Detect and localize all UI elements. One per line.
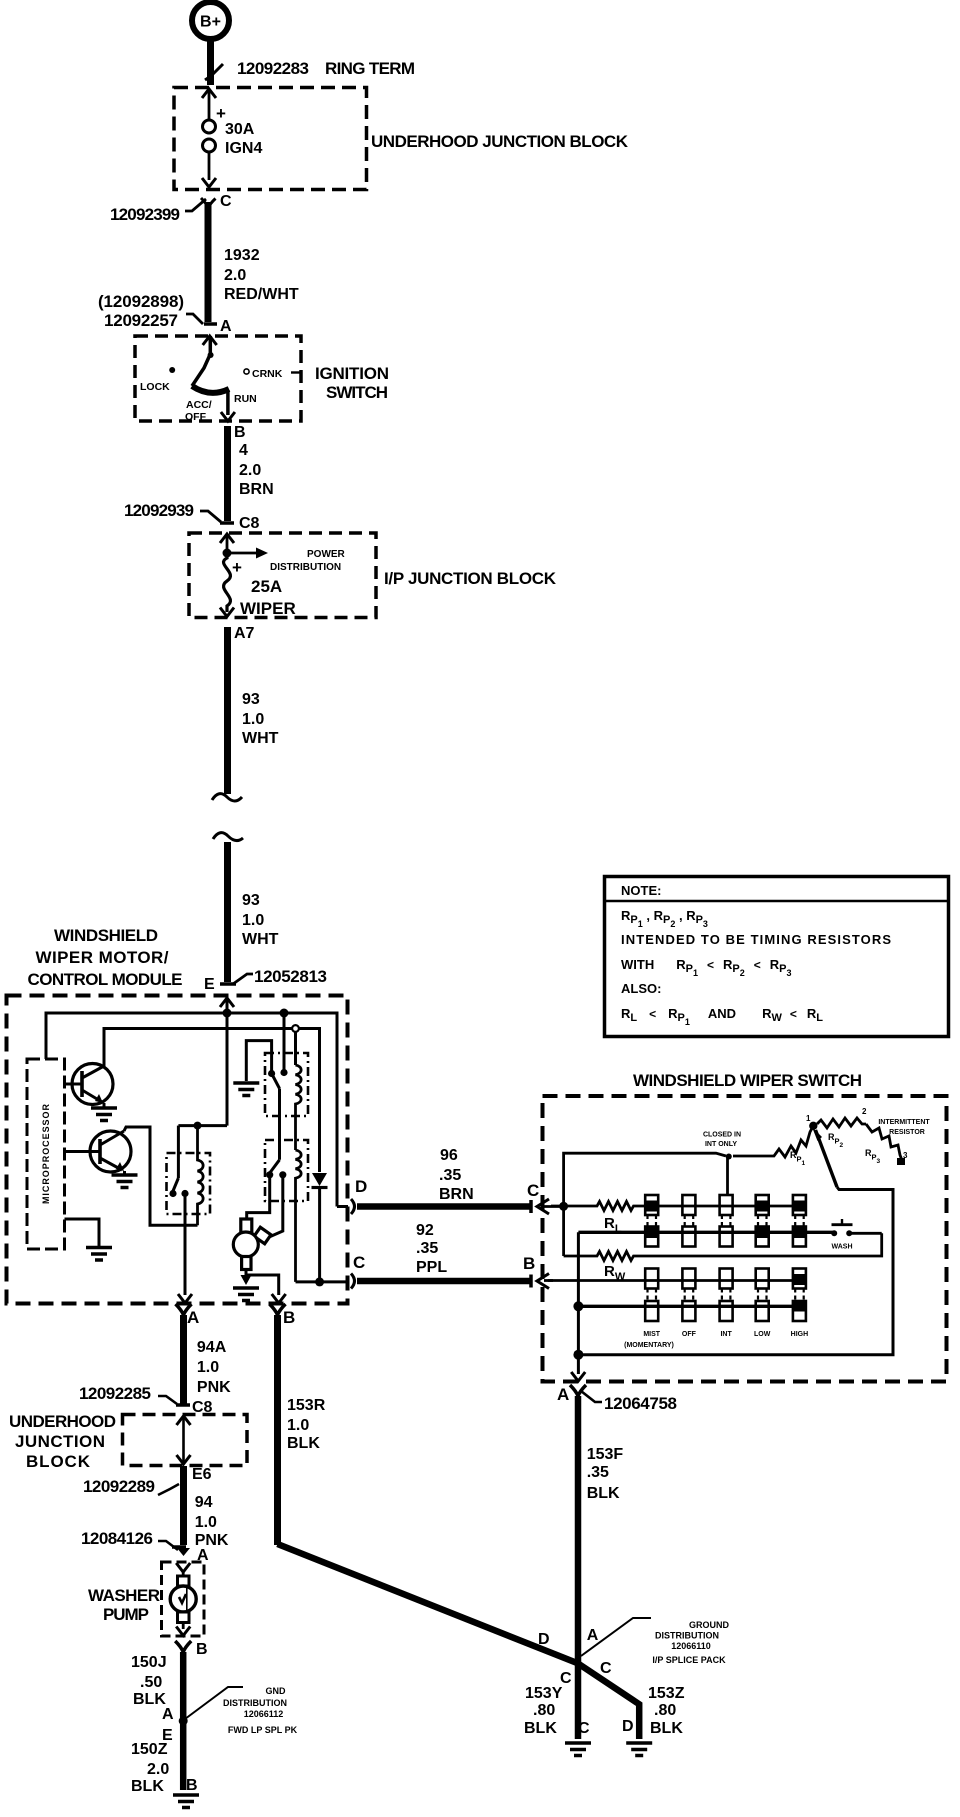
svg-text:MIST: MIST bbox=[643, 1331, 660, 1338]
lower contact column MIST bbox=[645, 1269, 658, 1322]
svg-text:JUNCTION: JUNCTION bbox=[15, 1432, 105, 1451]
wash switch bbox=[831, 1219, 882, 1251]
wire coil bottom to pin C bbox=[296, 1280, 349, 1283]
svg-text:BLK: BLK bbox=[131, 1778, 164, 1795]
svg-text:1.0: 1.0 bbox=[242, 912, 264, 929]
lower contact column OFF bbox=[682, 1269, 695, 1322]
resistor RP3 bbox=[866, 1124, 902, 1159]
svg-text:1: 1 bbox=[806, 1114, 811, 1123]
svg-text:WASH: WASH bbox=[832, 1244, 853, 1251]
pin B exit arrow bbox=[272, 1294, 286, 1303]
svg-text:D: D bbox=[538, 1631, 550, 1648]
svg-text:ACC/: ACC/ bbox=[186, 399, 212, 411]
svg-text:CONTROL MODULE: CONTROL MODULE bbox=[28, 970, 183, 989]
left vertical RW to A pin bbox=[577, 1232, 580, 1374]
wire 94A 1.0 PNK bbox=[184, 1315, 232, 1404]
svg-text:B: B bbox=[196, 1641, 208, 1658]
svg-text:BLK: BLK bbox=[587, 1485, 620, 1502]
ground under 153Z bbox=[626, 1743, 652, 1756]
svg-text:1.0: 1.0 bbox=[197, 1359, 219, 1376]
label closed in int only bbox=[703, 1132, 741, 1149]
junction block pass-through wire bbox=[177, 1416, 191, 1464]
fuse 25A WIPER bbox=[220, 553, 296, 618]
svg-text:153Z: 153Z bbox=[648, 1685, 685, 1702]
svg-text:1.0: 1.0 bbox=[195, 1514, 217, 1531]
svg-text:WIPER MOTOR/: WIPER MOTOR/ bbox=[36, 948, 169, 967]
svg-text:WHT: WHT bbox=[242, 931, 279, 948]
connector 12084126 pin A bbox=[81, 1529, 209, 1564]
svg-text:BRN: BRN bbox=[239, 481, 274, 498]
svg-text:.80: .80 bbox=[533, 1702, 555, 1719]
svg-text:C: C bbox=[220, 193, 232, 210]
svg-text:A: A bbox=[557, 1385, 569, 1404]
splice S2 I/P ground bbox=[575, 1660, 582, 1667]
svg-text:INT ONLY: INT ONLY bbox=[705, 1141, 737, 1148]
splice pin labels bbox=[538, 1627, 612, 1687]
svg-text:1.0: 1.0 bbox=[287, 1417, 309, 1434]
relay K3 coil bbox=[296, 1150, 302, 1282]
svg-text:12064758: 12064758 bbox=[604, 1394, 677, 1413]
wire 96 .35 BRN from module D to switch C bbox=[357, 1147, 564, 1214]
svg-text:A: A bbox=[587, 1627, 599, 1644]
row4 line bbox=[578, 1305, 806, 1308]
svg-text:153F: 153F bbox=[587, 1446, 624, 1463]
svg-text:A: A bbox=[162, 1706, 174, 1723]
fuse 30A IGN4 bbox=[202, 89, 262, 187]
lower contact column INT bbox=[720, 1269, 733, 1322]
connector 12092283 ring terminal bbox=[205, 59, 415, 80]
svg-text:.35: .35 bbox=[439, 1167, 461, 1184]
svg-text:LOCK: LOCK bbox=[140, 381, 170, 393]
ground under 153Y bbox=[565, 1743, 591, 1756]
resistor RP1 bbox=[733, 1126, 813, 1157]
wire Q2 collector to relay1 coil bbox=[124, 1127, 198, 1225]
svg-text:C8: C8 bbox=[239, 515, 260, 532]
wire motor to pin B bbox=[246, 1270, 279, 1296]
svg-text:BLK: BLK bbox=[650, 1720, 683, 1737]
svg-text:GROUND: GROUND bbox=[689, 1620, 729, 1630]
svg-text:INT: INT bbox=[720, 1331, 732, 1338]
relay K1 box bbox=[167, 1153, 211, 1214]
module pin B connector bbox=[270, 1304, 296, 1327]
row3 line (B) bbox=[548, 1279, 806, 1282]
relay K2 box bbox=[265, 1053, 308, 1116]
rotary wiper arm bbox=[578, 1127, 893, 1355]
wire 93 1.0 WHT (lower) bbox=[228, 842, 279, 982]
node int line to row1 bbox=[559, 1202, 568, 1211]
switch pin A exit arrow bbox=[571, 1372, 585, 1381]
svg-text:12092283: 12092283 bbox=[237, 59, 309, 78]
svg-text:94: 94 bbox=[195, 1494, 213, 1511]
svg-text:25A: 25A bbox=[251, 577, 282, 596]
wire 93 1.0 WHT (upper) bbox=[228, 627, 279, 794]
svg-text:CLOSED IN: CLOSED IN bbox=[703, 1132, 741, 1139]
svg-text:PPL: PPL bbox=[416, 1259, 447, 1276]
svg-text:12092399: 12092399 bbox=[110, 205, 180, 224]
power distribution arrow bbox=[220, 534, 346, 573]
svg-text:ALSO:: ALSO: bbox=[621, 981, 661, 996]
microprocessor U1 bbox=[27, 1059, 65, 1249]
svg-text:C: C bbox=[578, 1720, 590, 1737]
svg-text:POWER: POWER bbox=[307, 549, 346, 560]
svg-text:94A: 94A bbox=[197, 1339, 227, 1356]
wire break symbol (bottom) bbox=[213, 833, 243, 841]
ground at Q1 emitter bbox=[91, 1103, 117, 1121]
windshield wiper motor/control module title bbox=[28, 926, 183, 989]
svg-text:RING TERM: RING TERM bbox=[325, 59, 415, 78]
svg-text:GND: GND bbox=[266, 1686, 287, 1696]
svg-text:.50: .50 bbox=[140, 1674, 162, 1691]
svg-text:HIGH: HIGH bbox=[791, 1331, 809, 1338]
splice S1 ground distribution bbox=[162, 1686, 298, 1744]
node bottom line left bbox=[573, 1350, 583, 1360]
wire int-switch line bbox=[564, 1153, 726, 1256]
relay K2 switch bbox=[268, 1013, 288, 1160]
svg-text:INTERMITTENT: INTERMITTENT bbox=[878, 1119, 930, 1126]
wire bus1 (B+ rail) bbox=[46, 1013, 337, 1207]
wire relay K1 to pin A bbox=[184, 1194, 187, 1296]
svg-text:2.0: 2.0 bbox=[224, 267, 246, 284]
wire bus from E to relay1 area bbox=[178, 1122, 227, 1130]
wire 1932 2.0 RED/WHT bbox=[208, 202, 299, 322]
svg-text:DISTRIBUTION: DISTRIBUTION bbox=[223, 1698, 287, 1708]
svg-text:OFF: OFF bbox=[682, 1331, 697, 1338]
svg-text:30A: 30A bbox=[225, 121, 255, 138]
svg-text:(12092898): (12092898) bbox=[98, 292, 184, 311]
ignition switch bbox=[135, 336, 389, 421]
svg-text:C: C bbox=[353, 1253, 365, 1272]
relay K1 coil bbox=[198, 1126, 204, 1226]
contact column MIST bbox=[645, 1195, 658, 1247]
svg-text:D: D bbox=[622, 1718, 634, 1735]
splice callout ground distribution bbox=[581, 1618, 729, 1665]
wire 4 2.0 BRN bbox=[228, 426, 274, 521]
svg-text:96: 96 bbox=[440, 1147, 458, 1164]
switch pin A connector 12064758 bbox=[557, 1385, 677, 1413]
svg-text:4: 4 bbox=[239, 442, 248, 459]
ground at Q2 emitter bbox=[112, 1171, 138, 1188]
connector 12092257 bbox=[98, 292, 232, 335]
svg-text:12092257: 12092257 bbox=[104, 311, 178, 330]
wire 153Z .80 BLK labels bbox=[622, 1685, 685, 1737]
ground for relay K2 contact bbox=[233, 1041, 271, 1096]
wire bus2 (Q1 collector rail) bbox=[104, 1029, 320, 1173]
microprocessor ground pin bbox=[65, 1219, 113, 1260]
I/P junction block bbox=[189, 533, 376, 618]
svg-text:RESISTOR: RESISTOR bbox=[889, 1129, 925, 1136]
svg-text:WHT: WHT bbox=[242, 730, 279, 747]
module pin A connector bbox=[176, 1304, 200, 1327]
wiper motor M1 bbox=[233, 1219, 271, 1270]
contact column OFF bbox=[682, 1195, 695, 1247]
svg-text:150Z: 150Z bbox=[131, 1741, 168, 1758]
wire int contact to INT column bbox=[726, 1157, 729, 1196]
windshield wiper switch box bbox=[543, 1096, 947, 1382]
svg-text:E6: E6 bbox=[192, 1466, 212, 1483]
svg-text:12092939: 12092939 bbox=[124, 501, 194, 520]
diode D1 bbox=[312, 1173, 328, 1282]
svg-text:BLK: BLK bbox=[287, 1435, 320, 1452]
svg-text:PUMP: PUMP bbox=[103, 1605, 149, 1624]
connector 12092285 pin C8 bbox=[79, 1384, 213, 1416]
contact column INT bbox=[720, 1195, 733, 1247]
relay K1 switch bbox=[169, 1126, 188, 1198]
svg-text:PNK: PNK bbox=[197, 1379, 231, 1396]
svg-text:LOW: LOW bbox=[754, 1331, 771, 1338]
node 1 of intermittent resistors bbox=[809, 1122, 817, 1130]
svg-text:2.0: 2.0 bbox=[239, 462, 261, 479]
wire 153F .35 BLK bbox=[578, 1396, 623, 1739]
svg-text:DISTRIBUTION: DISTRIBUTION bbox=[270, 562, 341, 573]
resistor RP2 bbox=[817, 1118, 866, 1128]
note box bbox=[605, 877, 949, 1037]
svg-text:12092289: 12092289 bbox=[83, 1477, 155, 1496]
svg-text:MICROPROCESSOR: MICROPROCESSOR bbox=[41, 1104, 51, 1205]
svg-text:RUN: RUN bbox=[234, 393, 257, 405]
contact column HIGH bbox=[793, 1195, 806, 1247]
svg-text:A: A bbox=[220, 318, 232, 335]
svg-text:C: C bbox=[527, 1181, 539, 1200]
svg-text:I/P SPLICE PACK: I/P SPLICE PACK bbox=[652, 1655, 726, 1665]
svg-text:2: 2 bbox=[862, 1107, 867, 1116]
transistor Q1 bbox=[65, 1064, 114, 1105]
label WASHER PUMP bbox=[88, 1586, 160, 1624]
svg-text:B: B bbox=[283, 1308, 295, 1327]
svg-text:(MOMENTARY): (MOMENTARY) bbox=[624, 1342, 674, 1349]
transistor Q2 bbox=[65, 1131, 132, 1172]
node row4 left bbox=[573, 1301, 583, 1311]
svg-text:93: 93 bbox=[242, 691, 260, 708]
relay K2 coil bbox=[296, 1065, 302, 1150]
svg-text:WASHER: WASHER bbox=[88, 1586, 160, 1605]
svg-text:153Y: 153Y bbox=[525, 1685, 563, 1702]
wire 153R diagonal to splice bbox=[278, 1544, 579, 1663]
wire relay K3 right contact to motor brush bbox=[268, 1175, 283, 1238]
svg-text:E: E bbox=[204, 976, 215, 993]
svg-text:UNDERHOOD: UNDERHOOD bbox=[9, 1412, 116, 1431]
svg-text:UNDERHOOD JUNCTION BLOCK: UNDERHOOD JUNCTION BLOCK bbox=[371, 132, 629, 151]
underhood junction block (top) bbox=[174, 88, 367, 190]
svg-text:B: B bbox=[523, 1254, 535, 1273]
svg-text:D: D bbox=[355, 1177, 367, 1196]
pin A exit arrow bbox=[178, 1294, 192, 1303]
svg-text:.35: .35 bbox=[587, 1464, 609, 1481]
wire 153Z diagonal bbox=[578, 1663, 639, 1739]
svg-text:WIPER: WIPER bbox=[240, 599, 296, 618]
wire relay K3 left contact to motor bbox=[247, 1175, 270, 1219]
svg-text:12052813: 12052813 bbox=[254, 967, 327, 986]
resistor RL on row1 bbox=[551, 1202, 806, 1211]
connector 12092939 pin C8 bbox=[124, 501, 260, 532]
wire 92 .35 PPL from module C to switch B bbox=[357, 1222, 553, 1289]
connector 12092289 pin E6 bbox=[83, 1466, 212, 1496]
svg-text:IGNITION: IGNITION bbox=[315, 364, 389, 383]
pin C of junction block bbox=[110, 193, 232, 224]
label UNDERHOOD JUNCTION BLOCK (lower) bbox=[9, 1412, 116, 1471]
relay K3 switch bbox=[266, 1160, 286, 1179]
svg-text:12066112: 12066112 bbox=[244, 1709, 284, 1719]
ground below motor bbox=[233, 1288, 259, 1301]
ground at bottom left bbox=[173, 1795, 199, 1808]
wire 153R 1.0 BLK bbox=[278, 1315, 326, 1545]
label intermittent resistor bbox=[878, 1119, 930, 1136]
svg-text:FWD LP SPL PK: FWD LP SPL PK bbox=[228, 1725, 298, 1735]
relay K3 box bbox=[265, 1140, 308, 1201]
battery terminal B+ bbox=[192, 2, 229, 39]
svg-text:A7: A7 bbox=[234, 625, 255, 642]
pin E entry arrow bbox=[220, 998, 234, 1126]
svg-text:OFF: OFF bbox=[185, 411, 207, 423]
windshield wiper motor/control module box bbox=[7, 996, 348, 1304]
pin D bracket bbox=[337, 1205, 348, 1208]
svg-text:B: B bbox=[234, 424, 246, 441]
svg-text:1932: 1932 bbox=[224, 247, 260, 264]
underhood junction block (lower) bbox=[123, 1415, 248, 1466]
svg-text:12066110: 12066110 bbox=[671, 1641, 711, 1651]
svg-text:.35: .35 bbox=[416, 1240, 438, 1257]
wire break symbol (top) bbox=[212, 794, 242, 801]
svg-text:BLOCK: BLOCK bbox=[26, 1452, 91, 1471]
wire 150J .50 BLK bbox=[131, 1652, 183, 1790]
svg-text:NOTE:: NOTE: bbox=[621, 883, 661, 898]
svg-text:B: B bbox=[186, 1777, 198, 1794]
wire ring to relay2 coil bbox=[294, 1032, 297, 1065]
svg-text:CRNK: CRNK bbox=[252, 368, 283, 380]
svg-text:92: 92 bbox=[416, 1222, 434, 1239]
wire 153Y .80 BLK labels bbox=[524, 1685, 590, 1737]
svg-text:150J: 150J bbox=[131, 1654, 167, 1671]
svg-text:WINDSHIELD WIPER SWITCH: WINDSHIELD WIPER SWITCH bbox=[633, 1071, 862, 1090]
lower contact column LOW bbox=[756, 1269, 769, 1322]
svg-text:C: C bbox=[600, 1660, 612, 1677]
node on bus1 at E wire bbox=[223, 1009, 232, 1018]
lower contact column HIGH bbox=[793, 1269, 806, 1322]
pin C bracket bbox=[351, 1274, 355, 1289]
contact column LOW bbox=[756, 1195, 769, 1247]
svg-text:SWITCH: SWITCH bbox=[326, 383, 388, 402]
svg-text:1.0: 1.0 bbox=[242, 711, 264, 728]
svg-text:IGN4: IGN4 bbox=[225, 140, 262, 157]
svg-text:93: 93 bbox=[242, 892, 260, 909]
washer pump motor bbox=[170, 1563, 196, 1636]
svg-text:WINDSHIELD: WINDSHIELD bbox=[54, 926, 158, 945]
svg-text:+: + bbox=[232, 558, 242, 577]
int-only contact dot bbox=[726, 1154, 732, 1160]
wire 150Z 2.0 BLK bbox=[131, 1741, 198, 1795]
washer pump box bbox=[162, 1562, 205, 1636]
svg-text:12084126: 12084126 bbox=[81, 1529, 153, 1548]
svg-text:DISTRIBUTION: DISTRIBUTION bbox=[655, 1631, 719, 1641]
wire from B+ down to ring terminal bbox=[207, 39, 214, 85]
svg-text:BLK: BLK bbox=[524, 1720, 557, 1737]
connector 12052813 pin E bbox=[204, 967, 327, 993]
motor ground arrow bbox=[241, 1275, 252, 1285]
wire 94 1.0 PNK bbox=[184, 1466, 229, 1549]
svg-text:I/P JUNCTION BLOCK: I/P JUNCTION BLOCK bbox=[384, 569, 557, 588]
svg-text:.80: .80 bbox=[654, 1702, 676, 1719]
row2 line bbox=[578, 1231, 834, 1234]
svg-text:2.0: 2.0 bbox=[147, 1761, 169, 1778]
node on bus1 at relay2 pole bbox=[280, 1009, 289, 1018]
svg-text:BRN: BRN bbox=[439, 1186, 474, 1203]
resistor RW line bbox=[564, 1233, 882, 1260]
splice ring on bus2 bbox=[292, 1025, 299, 1032]
switch position labels bbox=[624, 1331, 808, 1349]
svg-text:A: A bbox=[187, 1308, 199, 1327]
svg-text:B+: B+ bbox=[200, 14, 221, 31]
svg-text:RED/WHT: RED/WHT bbox=[224, 286, 299, 303]
node diode to C wire bbox=[315, 1277, 324, 1286]
ignition switch contacts and arm bbox=[140, 336, 300, 423]
washer pump pin B connector bbox=[175, 1641, 207, 1658]
svg-text:153R: 153R bbox=[287, 1397, 326, 1414]
svg-text:12092285: 12092285 bbox=[79, 1384, 151, 1403]
